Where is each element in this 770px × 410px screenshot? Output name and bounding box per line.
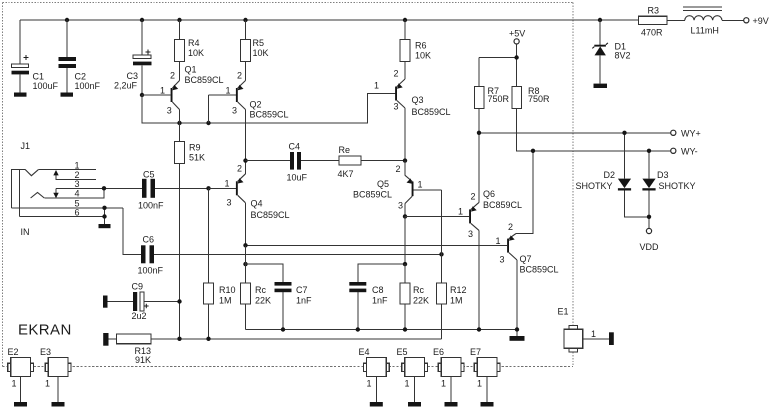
svg-text:470R: 470R [641,28,663,38]
node Q3-Q5-Re [403,158,407,162]
svg-text:1: 1 [367,379,372,389]
svg-text:Rc: Rc [413,285,424,295]
resistor R6 10K [400,20,431,62]
svg-text:2u2: 2u2 [132,311,147,321]
node +5V split [514,55,518,59]
terminal WY- [671,147,698,157]
svg-text:R10: R10 [219,285,236,295]
shield boundary EKRAN (dotted box) [3,3,574,367]
inductor L1 1mH [683,7,722,36]
resistor R8 750R [512,86,671,151]
node C9-R9 line [177,299,181,303]
svg-text:1: 1 [374,81,379,91]
svg-text:SHOTKY: SHOTKY [576,181,613,191]
diode D2 SHOTKY [576,133,650,217]
capacitor C6 100nF [138,235,442,276]
transistor Q1 BC859CL [160,62,224,124]
capacitor C9 2u2 [103,282,180,322]
transistor Q3 BC859CL [374,62,451,161]
feedthrough E5 [397,347,428,402]
svg-text:3: 3 [167,106,172,116]
node Q5-Q6 base [403,214,407,218]
capacitor C7 1nF [246,264,313,329]
ground D1 [594,84,608,88]
wire line A (emitters ground bus) [246,329,518,331]
svg-text:4: 4 [75,189,80,199]
resistor R13 91K [103,333,441,365]
ground line A / Q7 collector [510,336,525,341]
node R9-lineB [177,337,181,341]
svg-text:+9V: +9V [753,16,769,26]
transistor Q6 BC859CL [458,189,522,330]
terminal +9V [744,16,769,26]
svg-text:BC859CL: BC859CL [250,110,289,120]
svg-text:C7: C7 [296,285,308,295]
svg-text:3: 3 [500,255,505,265]
wire R3 to L1 [667,19,685,21]
svg-text:Q2: Q2 [250,100,262,110]
node mirror-R9 [177,121,181,125]
transistor Q7 BC859CL [496,151,559,336]
svg-text:2: 2 [396,164,401,174]
svg-text:91K: 91K [135,355,151,365]
svg-text:1: 1 [405,379,410,389]
wire Q1 base [142,94,171,96]
svg-text:D2: D2 [604,170,616,180]
wire Q7 base line [246,244,508,246]
resistor Re 4K7 [338,145,362,179]
svg-text:BC859CL: BC859CL [185,75,224,85]
svg-text:2: 2 [394,69,399,79]
resistor R4 10K [175,20,205,62]
svg-text:Q5: Q5 [377,179,389,189]
ground C1 [14,93,27,97]
svg-text:C5: C5 [143,170,155,180]
node Q6-lineA [477,327,481,331]
transistor Q2 BC859CL [209,62,289,161]
svg-text:WY-: WY- [681,147,698,157]
svg-text:1: 1 [12,379,17,389]
svg-text:C1: C1 [33,72,45,82]
svg-text:8V2: 8V2 [615,51,631,61]
svg-text:1: 1 [441,379,446,389]
wire C3 node to mirror line [142,94,396,124]
node RcR-lineA [403,327,407,331]
feedthrough E1 [558,307,610,353]
node D3 on WY- [647,149,651,153]
wire top +9V rail [20,19,639,21]
svg-text:BC859CL: BC859CL [483,200,522,210]
svg-text:BC859CL: BC859CL [520,265,559,275]
svg-text:Q4: Q4 [251,199,263,209]
node Q4 collector-Q7 base [243,243,247,247]
svg-text:Q3: Q3 [412,95,424,105]
transistor Q4 BC859CL [209,161,290,246]
resistor R9 51K [175,123,206,339]
svg-text:EKRAN: EKRAN [18,322,72,339]
diode D3 SHOTKY [642,151,695,229]
svg-text:100nF: 100nF [138,201,164,211]
svg-text:C6: C6 [143,235,155,245]
capacitor C3 2,2uF [114,20,152,95]
ground E7 [481,402,494,407]
ground stub E1 [609,332,614,345]
ground C2 [61,93,74,97]
node rail-C3 [140,18,144,22]
svg-text:10uF: 10uF [287,173,308,183]
capacitor C1 100uF [12,20,59,93]
svg-text:2: 2 [508,222,513,232]
svg-text:1: 1 [75,160,80,170]
svg-text:Q1: Q1 [185,65,197,75]
node D2-D3 join [647,215,651,219]
svg-text:1: 1 [418,180,423,190]
svg-text:D3: D3 [657,170,669,180]
resistor R5 10K [241,20,269,62]
node R7-WY+ [477,131,481,135]
resistor Rc right 22K [400,264,429,329]
wire Q5 base to R12 [441,190,443,283]
ground E6 [445,402,458,407]
svg-text:R3: R3 [648,6,660,16]
svg-text:1: 1 [458,207,463,217]
feedthrough E2 [8,347,34,402]
node Rc left top / line3 [243,262,247,266]
resistor Rc left 22K [241,245,272,329]
svg-text:2: 2 [471,192,476,202]
wire L1 to +9V [722,19,744,21]
node rail-R5 [243,18,247,22]
node R10-lineB [206,337,210,341]
svg-text:E2: E2 [8,347,19,357]
node rail-C2 [65,18,69,22]
node C8-lineA [356,327,360,331]
svg-text:J1: J1 [21,141,31,151]
node C3-Q1 base [140,93,144,97]
node J1 pin5 [102,206,106,210]
capacitor C5 100nF [138,170,209,211]
connector J1 input jack [11,141,142,254]
svg-text:C9: C9 [132,282,144,292]
svg-text:C2: C2 [75,72,87,82]
node rail-R4 [177,18,181,22]
node Q2-Q4-C4 [243,158,247,162]
svg-text:750R: 750R [528,94,550,104]
terminal WY+ [671,129,701,139]
svg-text:2: 2 [170,71,175,81]
svg-text:10K: 10K [188,48,204,58]
svg-text:E3: E3 [40,347,51,357]
wire Q5 collector to line3 [404,216,406,264]
svg-text:1nF: 1nF [296,296,312,306]
node mirror-Q2 base [206,121,210,125]
transistor Q5 BC859CL (mirrored) [353,161,442,217]
svg-text:R6: R6 [415,41,427,51]
svg-text:BC859CL: BC859CL [412,107,451,117]
svg-text:BC859CL: BC859CL [251,210,290,220]
capacitor C8 1nF [349,264,405,329]
node D2 on WY+ [622,131,626,135]
svg-text:E7: E7 [470,347,481,357]
node C6-R12-Q5 base [439,252,443,256]
svg-text:100nF: 100nF [75,81,101,91]
svg-text:C8: C8 [372,285,384,295]
terminal VDD [640,228,660,252]
node Rc right top / line3 [403,262,407,266]
svg-text:Q6: Q6 [483,189,495,199]
svg-text:22K: 22K [413,296,429,306]
wire C4 line [246,160,406,162]
svg-text:E5: E5 [397,347,408,357]
svg-text:SHOTKY: SHOTKY [659,181,696,191]
svg-text:10K: 10K [253,48,269,58]
svg-text:L11mH: L11mH [691,26,719,36]
svg-text:1: 1 [496,236,501,246]
svg-text:750R: 750R [488,94,510,104]
wire +5V to R7 R8 [479,44,517,86]
node J1 pins3-4 [102,186,106,190]
svg-text:R4: R4 [188,38,200,48]
resistor R7 750R [475,86,510,202]
svg-text:3: 3 [75,179,80,189]
diode D1 zener 8V2 [592,20,630,84]
resistor R3 470R [639,6,668,38]
node C5-Q4 base-R10 [206,186,210,190]
capacitor C2 100nF [59,20,101,93]
svg-text:4K7: 4K7 [338,169,354,179]
svg-text:R12: R12 [450,285,467,295]
node C7-lineA [281,327,285,331]
svg-text:100uF: 100uF [33,81,59,91]
svg-text:2,2uF: 2,2uF [114,80,138,90]
svg-text:E1: E1 [558,307,569,317]
node rail-R6 [403,18,407,22]
feedthrough E4 [359,347,390,402]
node J1 pin6 [102,214,106,218]
svg-text:+5V: +5V [509,29,525,39]
svg-text:R9: R9 [189,143,201,153]
svg-text:1: 1 [225,178,230,188]
svg-text:E6: E6 [433,347,444,357]
svg-text:BC859CL: BC859CL [353,190,392,200]
svg-text:100nF: 100nF [138,266,164,276]
svg-text:Rc: Rc [255,285,266,295]
svg-text:1: 1 [45,379,50,389]
svg-text:3: 3 [398,201,403,211]
svg-text:6: 6 [75,207,80,217]
svg-text:3: 3 [227,198,232,208]
node Q7 emitter-WY- [531,149,535,153]
svg-text:22K: 22K [255,296,271,306]
svg-text:3: 3 [468,229,473,239]
svg-text:1: 1 [226,86,231,96]
svg-text:1: 1 [160,86,165,96]
ground E5 [408,402,421,407]
svg-text:2: 2 [237,71,242,81]
svg-text:VDD: VDD [640,242,660,252]
resistor R10 1M [204,188,236,338]
svg-text:1: 1 [477,379,482,389]
svg-text:10K: 10K [415,51,431,61]
svg-text:IN: IN [21,227,30,237]
svg-text:1: 1 [591,329,596,339]
svg-text:3: 3 [394,102,399,112]
svg-text:Q7: Q7 [520,254,532,264]
svg-text:C4: C4 [289,142,301,152]
svg-text:Re: Re [339,145,351,155]
feedthrough E7 [470,347,500,402]
feedthrough E6 [433,347,464,402]
svg-text:3: 3 [232,106,237,116]
wire Q6 base [405,215,469,217]
svg-text:1M: 1M [219,296,232,306]
node Q7-lineA [515,327,519,331]
svg-text:51K: 51K [189,153,205,163]
svg-text:1nF: 1nF [372,296,388,306]
svg-text:R5: R5 [253,38,265,48]
wire WY+ line [479,132,671,134]
ground E2 [14,402,27,407]
capacitor C4 10uF [287,142,308,183]
node rail-D1 [598,18,602,22]
resistor R12 1M [437,283,467,339]
feedthrough E3 [40,347,71,402]
svg-text:1M: 1M [450,296,463,306]
terminal +5V [509,29,525,45]
svg-text:E4: E4 [359,347,370,357]
ground E3 [52,402,65,407]
svg-text:WY+: WY+ [681,129,701,139]
ground J1 sleeve [99,224,111,228]
ground E4 [370,402,383,407]
svg-text:2: 2 [237,164,242,174]
